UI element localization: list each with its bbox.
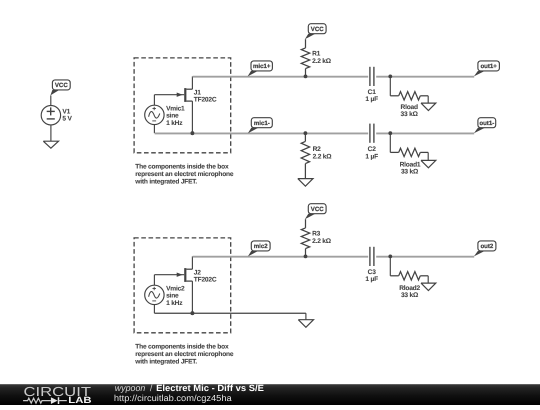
svg-text:Rload: Rload bbox=[401, 104, 418, 111]
svg-text:33 kΩ: 33 kΩ bbox=[401, 169, 419, 176]
svg-text:5 V: 5 V bbox=[62, 115, 72, 122]
svg-text:C3: C3 bbox=[368, 269, 377, 276]
svg-text:with integrated JFET.: with integrated JFET. bbox=[134, 179, 197, 186]
svg-text:out2: out2 bbox=[480, 243, 493, 250]
svg-text:R2: R2 bbox=[313, 146, 322, 153]
svg-text:33 kΩ: 33 kΩ bbox=[401, 111, 419, 118]
svg-text:J1: J1 bbox=[194, 90, 201, 97]
svg-text:mic1-: mic1- bbox=[254, 120, 270, 127]
svg-text:C2: C2 bbox=[368, 146, 377, 153]
svg-text:represent an electret micropho: represent an electret microphone bbox=[135, 351, 234, 358]
svg-text:mic1+: mic1+ bbox=[253, 63, 271, 70]
svg-text:sine: sine bbox=[166, 113, 179, 120]
svg-text:1 µF: 1 µF bbox=[365, 276, 378, 283]
svg-text:Rload1: Rload1 bbox=[400, 161, 421, 168]
svg-text:The components inside the box: The components inside the box bbox=[135, 343, 229, 350]
svg-text:with integrated JFET.: with integrated JFET. bbox=[134, 359, 197, 366]
svg-text:VCC: VCC bbox=[311, 206, 324, 213]
svg-text:VCC: VCC bbox=[55, 82, 68, 89]
svg-text:1 µF: 1 µF bbox=[365, 96, 378, 103]
svg-text:VCC: VCC bbox=[311, 26, 324, 33]
svg-text:sine: sine bbox=[166, 293, 179, 300]
svg-text:1 µF: 1 µF bbox=[365, 154, 378, 161]
svg-text:Vmic2: Vmic2 bbox=[166, 286, 185, 293]
svg-text:1 kHz: 1 kHz bbox=[166, 300, 183, 307]
svg-text:mic2: mic2 bbox=[254, 243, 269, 250]
svg-text:represent an electret micropho: represent an electret microphone bbox=[135, 171, 234, 178]
svg-text:Rload2: Rload2 bbox=[399, 285, 420, 292]
svg-text:J2: J2 bbox=[194, 270, 201, 277]
svg-text:out1-: out1- bbox=[479, 120, 494, 127]
svg-text:33 kΩ: 33 kΩ bbox=[401, 292, 419, 299]
svg-text:TF202C: TF202C bbox=[194, 277, 217, 284]
svg-text:R3: R3 bbox=[312, 230, 321, 237]
svg-text:C1: C1 bbox=[368, 89, 377, 96]
svg-text:2.2 kΩ: 2.2 kΩ bbox=[313, 154, 333, 161]
svg-text:The components inside the box: The components inside the box bbox=[135, 163, 229, 170]
svg-text:out1+: out1+ bbox=[480, 63, 497, 70]
svg-text:LAB: LAB bbox=[68, 395, 92, 405]
svg-text:http://circuitlab.com/cgz45ha: http://circuitlab.com/cgz45ha bbox=[114, 393, 232, 403]
svg-text:Electret Mic - Diff vs S/E: Electret Mic - Diff vs S/E bbox=[156, 383, 264, 393]
svg-text:R1: R1 bbox=[312, 50, 321, 57]
svg-text:2.2 kΩ: 2.2 kΩ bbox=[312, 58, 332, 65]
svg-text:TF202C: TF202C bbox=[194, 97, 217, 104]
svg-text:Vmic1: Vmic1 bbox=[166, 106, 185, 113]
svg-text:1 kHz: 1 kHz bbox=[166, 120, 183, 127]
svg-text:wypoon: wypoon bbox=[115, 383, 146, 393]
svg-text:2.2 kΩ: 2.2 kΩ bbox=[312, 238, 332, 245]
